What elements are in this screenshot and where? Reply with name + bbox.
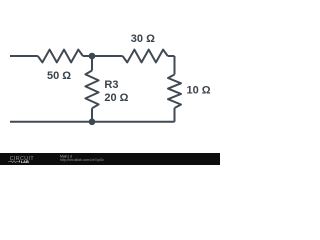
wire right vertical top lead [174, 56, 176, 75]
wire R3 bottom lead [91, 108, 93, 122]
wire top-right segment to corner [168, 55, 175, 57]
wire top-left lead [10, 55, 38, 57]
resistor R4 zigzag (10 ohm, vertical) [168, 75, 181, 109]
watermark bar [0, 153, 220, 165]
watermark logo zigzag [8, 161, 18, 163]
svg-text:30 Ω: 30 Ω [131, 33, 155, 45]
resistor R1 zigzag (50 ohm) [38, 50, 83, 63]
svg-text:LAB: LAB [21, 159, 29, 164]
node junction top (R3 top) [89, 53, 96, 60]
wire bottom rail [10, 121, 175, 123]
wire R3 top lead [91, 56, 93, 71]
svg-text:R3: R3 [104, 79, 118, 91]
svg-text:20 Ω: 20 Ω [104, 92, 128, 104]
resistor R3 zigzag (20 ohm, vertical) [85, 71, 98, 109]
wire right vertical bottom lead [174, 108, 176, 122]
wire top-middle segment [83, 55, 123, 57]
resistor R2 zigzag (30 ohm) [123, 50, 168, 63]
svg-text:50 Ω: 50 Ω [47, 70, 71, 82]
node junction bottom (R3 bottom) [89, 119, 96, 126]
svg-text:http://circuitlab.com/c/e7qd3x: http://circuitlab.com/c/e7qd3x [60, 158, 104, 162]
svg-text:10 Ω: 10 Ω [187, 85, 211, 97]
watermark logo bolt [18, 160, 20, 164]
